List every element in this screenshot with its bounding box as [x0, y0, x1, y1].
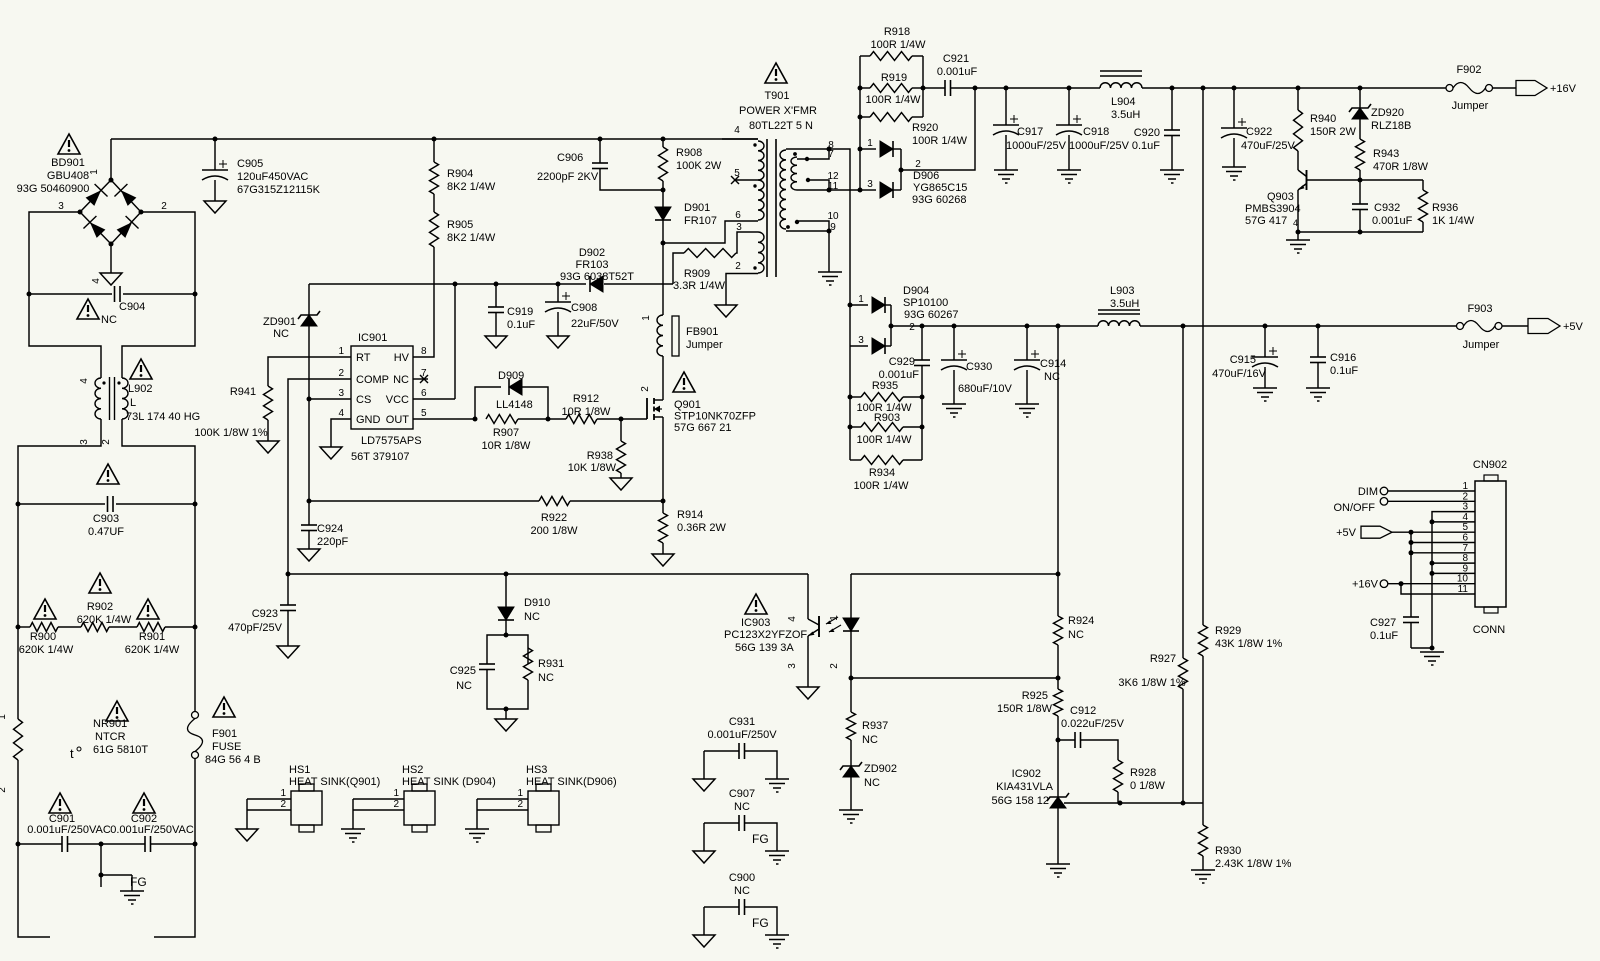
junction: [99, 873, 104, 878]
wire: [101, 874, 132, 876]
svg-text:2: 2: [909, 322, 915, 333]
capacitor C906: [537, 139, 663, 190]
svg-text:C921: C921: [943, 53, 969, 65]
ground FG: [120, 875, 147, 904]
resistor R924: [1054, 574, 1095, 678]
svg-text:FG: FG: [130, 875, 147, 889]
resistor R941: [194, 386, 272, 439]
wire: snubber left bus: [859, 56, 861, 190]
svg-text:R934: R934: [869, 467, 895, 479]
wire: [413, 356, 434, 357]
ground arrow: [257, 441, 279, 453]
capacitor C917: [993, 88, 1067, 183]
zener diode ZD902: [840, 762, 897, 789]
junction: [504, 707, 509, 712]
svg-text:D904: D904: [903, 285, 929, 297]
svg-text:10R 1/8W: 10R 1/8W: [562, 406, 612, 418]
svg-text:4: 4: [734, 125, 740, 136]
svg-text:C907: C907: [729, 788, 755, 800]
svg-text:NC: NC: [393, 374, 409, 386]
svg-text:LL4148: LL4148: [496, 399, 533, 411]
svg-text:DIM: DIM: [1358, 486, 1378, 498]
ground (secondary 9/10): [818, 272, 842, 285]
svg-text:R927: R927: [1150, 653, 1176, 665]
resistor R907: [482, 415, 532, 453]
label ON/OFF: [1333, 502, 1375, 514]
wire: [662, 220, 664, 243]
svg-text:FUSE: FUSE: [212, 741, 241, 753]
junction: [1316, 324, 1321, 329]
svg-text:C905: C905: [237, 158, 263, 170]
junction: [849, 676, 854, 681]
svg-text:2: 2: [161, 201, 167, 212]
junction: [661, 188, 666, 193]
svg-text:120uF450VAC: 120uF450VAC: [237, 171, 308, 183]
warning triangle: [97, 464, 119, 484]
resistor R929: [1199, 88, 1283, 803]
svg-text:2: 2: [517, 799, 523, 810]
junction: [920, 324, 925, 329]
svg-text:R912: R912: [573, 393, 599, 405]
svg-text:43K 1/8W 1%: 43K 1/8W 1%: [1215, 638, 1282, 650]
svg-text:2: 2: [0, 787, 8, 793]
svg-text:+5V: +5V: [1336, 527, 1357, 539]
svg-text:FG: FG: [752, 832, 769, 846]
svg-text:R918: R918: [884, 26, 910, 38]
diode D904 (3): [850, 335, 891, 354]
junction: [598, 137, 603, 142]
svg-text:1: 1: [338, 346, 344, 357]
wire: [850, 740, 852, 766]
junction: [1430, 571, 1435, 576]
junction: [193, 625, 198, 630]
svg-text:3: 3: [858, 335, 864, 346]
svg-text:1: 1: [867, 138, 873, 149]
connector CN902: [1457, 459, 1507, 636]
warning triangle: [137, 599, 159, 619]
flag +5V (conn): [1336, 526, 1392, 539]
junction: [848, 395, 853, 400]
svg-text:R922: R922: [541, 512, 567, 524]
svg-text:C925: C925: [450, 665, 476, 677]
junction: [899, 168, 904, 173]
svg-text:3: 3: [867, 179, 873, 190]
resistor R900: [19, 623, 74, 657]
junction: [619, 417, 624, 422]
svg-text:D901: D901: [684, 202, 710, 214]
junction: [16, 842, 21, 847]
wire: [1410, 532, 1412, 617]
svg-text:R937: R937: [862, 720, 888, 732]
wire: feedback rail: [288, 573, 808, 575]
transistor Q901: [640, 386, 756, 434]
junction: [1232, 86, 1237, 91]
svg-text:80TL22T 5 N: 80TL22T 5 N: [749, 120, 813, 132]
svg-text:R914: R914: [677, 509, 703, 521]
junction: [546, 417, 551, 422]
warning triangle: [673, 372, 695, 392]
wire pin3: [1432, 512, 1475, 648]
junction: [661, 499, 666, 504]
svg-text:470pF/25V: 470pF/25V: [228, 622, 282, 634]
label D904: [903, 285, 958, 333]
ground arrow (bridge pin 4): [91, 273, 122, 285]
junction: [1004, 86, 1009, 91]
svg-text:3: 3: [79, 439, 90, 445]
wire: [518, 418, 566, 420]
junction: [858, 147, 863, 152]
svg-text:+5V: +5V: [1563, 321, 1584, 333]
svg-text:C931: C931: [729, 716, 755, 728]
wire: [851, 573, 1058, 575]
svg-text:C930: C930: [966, 361, 992, 373]
svg-text:93G 50460900: 93G 50460900: [17, 183, 90, 195]
svg-text:3: 3: [787, 663, 798, 669]
svg-text:0.36R 2W: 0.36R 2W: [677, 522, 727, 534]
ground arrow: [495, 719, 517, 731]
wire: [736, 232, 758, 253]
svg-text:R908: R908: [676, 147, 702, 159]
resistor R903: [850, 412, 922, 446]
wire: [1297, 151, 1299, 170]
wire: [194, 504, 196, 627]
terminal ON/OFF: [1380, 498, 1388, 506]
wire pin11: [1401, 584, 1475, 594]
wire: [850, 574, 852, 618]
svg-text:2: 2: [915, 159, 921, 170]
junction: [16, 625, 21, 630]
wire: [849, 346, 851, 460]
svg-text:PMBS3904: PMBS3904: [1245, 203, 1301, 215]
svg-text:NTCR: NTCR: [95, 731, 126, 743]
svg-text:0.001uF/250VAC: 0.001uF/250VAC: [110, 824, 194, 836]
svg-text:C900: C900: [729, 872, 755, 884]
capacitor C923: [228, 574, 299, 658]
capacitor C912: [1058, 705, 1125, 760]
ground: [1420, 652, 1444, 665]
transformer T901: [734, 90, 839, 277]
junction: [286, 572, 291, 577]
svg-text:L: L: [130, 397, 136, 409]
svg-text:CN902: CN902: [1473, 459, 1507, 471]
svg-text:4: 4: [1293, 218, 1298, 228]
warning triangle: [49, 793, 71, 813]
wire: sec pin9: [786, 230, 829, 232]
wire: [901, 88, 975, 170]
svg-text:8K2 1/4W: 8K2 1/4W: [447, 181, 496, 193]
wire pin6: [1411, 542, 1475, 544]
junction: [1170, 86, 1175, 91]
svg-text:10K 1/8W: 10K 1/8W: [568, 462, 617, 474]
junction: [473, 417, 478, 422]
wire: [110, 244, 112, 273]
no-connect X: [420, 375, 428, 383]
svg-text:0.001uF: 0.001uF: [937, 66, 978, 78]
wire: [506, 635, 528, 664]
junction: [504, 572, 509, 577]
capacitor C902: [110, 813, 194, 852]
junction: [1409, 540, 1414, 545]
no-connect X: [731, 176, 739, 184]
capacitor C900: [693, 872, 789, 948]
junction: [556, 282, 561, 287]
wire: [433, 247, 435, 356]
junction: [858, 115, 863, 120]
svg-text:2.43K 1/8W 1%: 2.43K 1/8W 1%: [1215, 858, 1292, 870]
wire: [194, 759, 196, 844]
svg-text:C920: C920: [1134, 127, 1160, 139]
svg-text:CONN: CONN: [1473, 624, 1505, 636]
svg-text:R920: R920: [912, 122, 938, 134]
junction: [805, 157, 809, 161]
svg-text:Jumper: Jumper: [1452, 100, 1489, 112]
capacitor C929: [879, 326, 930, 381]
junction: [432, 137, 437, 142]
svg-text:F902: F902: [1456, 64, 1481, 76]
svg-text:IC902: IC902: [1012, 768, 1041, 780]
svg-text:R935: R935: [872, 380, 898, 392]
junction: [307, 499, 312, 504]
label DIM: [1358, 486, 1378, 498]
wire: [1359, 119, 1361, 139]
junction: [1409, 550, 1414, 555]
resistor R904: [430, 139, 496, 194]
resistor R937: [847, 678, 889, 746]
warning triangle: [130, 359, 152, 379]
svg-text:RT: RT: [356, 352, 371, 364]
svg-text:57G 417: 57G 417: [1245, 215, 1287, 227]
svg-text:3: 3: [736, 222, 742, 233]
junction: [494, 282, 499, 287]
svg-text:10R 1/8W: 10R 1/8W: [482, 440, 532, 452]
junction: [1430, 519, 1435, 524]
wire: [1360, 179, 1423, 181]
diode D906 (3): [860, 179, 901, 198]
svg-text:R905: R905: [447, 219, 473, 231]
warning triangle: [34, 599, 56, 619]
heat sink HS1: [236, 764, 380, 841]
wire: [141, 212, 195, 294]
junction: [827, 188, 832, 193]
wire: [951, 87, 976, 89]
svg-text:2: 2: [338, 368, 344, 379]
svg-text:1000uF/25V: 1000uF/25V: [1069, 140, 1130, 152]
svg-text:R903: R903: [874, 412, 900, 424]
wire pin4: [1432, 521, 1475, 523]
svg-text:D909: D909: [498, 370, 524, 382]
wire: sec pin8: [786, 149, 850, 305]
svg-text:1: 1: [89, 169, 100, 175]
svg-text:F901: F901: [212, 728, 237, 740]
inductor L903: [1098, 285, 1140, 326]
resistor R909: [673, 249, 736, 293]
wire: sec pin7 tie: [797, 149, 829, 159]
wire: [454, 284, 456, 399]
svg-text:3.3R 1/4W: 3.3R 1/4W: [673, 280, 726, 292]
wire: [413, 398, 455, 400]
junction: [1056, 572, 1061, 577]
wire: [518, 387, 548, 419]
junction: [889, 324, 894, 329]
svg-text:1: 1: [829, 615, 840, 621]
svg-text:C908: C908: [571, 302, 597, 314]
wire: sec pin12 tie: [808, 180, 829, 190]
junction: [848, 303, 853, 308]
svg-text:C923: C923: [252, 608, 278, 620]
IC IC901 LD7575APS: [338, 332, 427, 463]
svg-text:R919: R919: [881, 72, 907, 84]
svg-text:1: 1: [858, 294, 864, 305]
wire: [1142, 87, 1446, 89]
inductor L904: [1100, 71, 1142, 121]
wire: [309, 500, 539, 502]
svg-text:5: 5: [421, 408, 427, 419]
wire: [604, 283, 673, 285]
svg-text:0.022uF/25V: 0.022uF/25V: [1061, 718, 1125, 730]
junction: [1399, 581, 1404, 586]
svg-text:C915: C915: [1230, 354, 1256, 366]
resistor R902: [77, 601, 132, 632]
junction: [827, 229, 832, 234]
junction: [1056, 324, 1061, 329]
svg-text:R928: R928: [1130, 767, 1156, 779]
svg-text:100R 1/4W: 100R 1/4W: [912, 135, 968, 147]
junction: [1056, 676, 1061, 681]
capacitor C932: [1352, 180, 1413, 232]
heat sink HS3: [465, 764, 617, 842]
junction: [1296, 86, 1301, 91]
svg-text:FG: FG: [752, 916, 769, 930]
svg-text:COMP: COMP: [356, 374, 389, 386]
svg-text:4: 4: [338, 408, 344, 419]
wire: [268, 357, 351, 386]
capacitor C914: [1014, 326, 1066, 417]
svg-text:C922: C922: [1246, 126, 1272, 138]
wire: [18, 626, 30, 628]
junction: [213, 137, 218, 142]
junction: [1296, 230, 1301, 235]
resistor R922: [530, 497, 578, 538]
junction: [1409, 530, 1414, 535]
ground: [1191, 870, 1215, 883]
svg-text:57G 667 21: 57G 667 21: [674, 422, 732, 434]
wire: [1388, 500, 1475, 502]
svg-text:NC: NC: [864, 777, 880, 789]
wire: [735, 179, 758, 181]
svg-text:84G 56 4 B: 84G 56 4 B: [205, 754, 261, 766]
svg-text:R900: R900: [30, 631, 56, 643]
flag +16V: [1516, 81, 1577, 96]
capacitor C908: [545, 284, 619, 348]
junction: [1181, 324, 1186, 329]
svg-text:C932: C932: [1374, 202, 1400, 214]
shunt regulator IC902: [992, 768, 1070, 808]
wire: ref rail: [1064, 802, 1203, 804]
svg-text:6: 6: [421, 388, 427, 399]
terminal DIM: [1380, 487, 1388, 495]
wire: [673, 253, 684, 284]
junction: [661, 241, 666, 246]
svg-text:0.1uF: 0.1uF: [1132, 140, 1160, 152]
svg-text:1: 1: [280, 788, 286, 799]
svg-text:C904: C904: [119, 301, 145, 313]
fuse F902: [1446, 64, 1493, 112]
wire: [722, 138, 758, 140]
wire: [58, 626, 81, 628]
ground arrow: [320, 447, 342, 459]
resistor R914: [659, 501, 727, 554]
svg-text:620K 1/4W: 620K 1/4W: [125, 644, 180, 656]
LED (IC903): [843, 618, 859, 631]
svg-text:NC: NC: [273, 328, 289, 340]
svg-text:HEAT SINK(D906): HEAT SINK(D906): [526, 776, 617, 788]
junction: [1430, 646, 1435, 651]
capacitor C918: [1056, 88, 1130, 183]
ground arrow: [715, 305, 737, 317]
wire: [154, 844, 195, 937]
wire: [17, 627, 19, 719]
junction: [952, 324, 957, 329]
wire pin7: [1411, 552, 1475, 554]
svg-text:NC: NC: [862, 734, 878, 746]
junction: [1067, 86, 1072, 91]
svg-text:C929: C929: [889, 356, 915, 368]
diode D910: [498, 574, 550, 623]
svg-text:470R 1/8W: 470R 1/8W: [1373, 161, 1429, 173]
svg-text:NC: NC: [734, 801, 750, 813]
svg-text:2: 2: [393, 799, 399, 810]
svg-text:2: 2: [829, 663, 840, 669]
svg-text:R940: R940: [1310, 113, 1336, 125]
wire: [151, 843, 195, 845]
svg-text:0.1uF: 0.1uF: [1330, 365, 1358, 377]
junction: [848, 425, 853, 430]
svg-text:1K 1/4W: 1K 1/4W: [1432, 215, 1475, 227]
optocoupler IC903: [724, 615, 841, 687]
wire: [1057, 808, 1059, 864]
svg-text:t: t: [70, 746, 74, 761]
wire: main HV+ rail: [111, 138, 758, 140]
svg-text:100R 1/4W: 100R 1/4W: [856, 434, 912, 446]
wire: [122, 419, 195, 504]
svg-text:ZD902: ZD902: [864, 763, 897, 775]
wire: [851, 677, 1058, 679]
wire: [1502, 325, 1528, 327]
wire: [100, 844, 102, 887]
resistor R920: [860, 113, 968, 148]
svg-text:D902: D902: [579, 247, 605, 259]
svg-text:C917: C917: [1017, 126, 1043, 138]
svg-text:C906: C906: [557, 152, 583, 164]
svg-text:Q901: Q901: [674, 399, 701, 411]
svg-text:D906: D906: [913, 170, 939, 182]
wire: [890, 305, 892, 346]
wire: [921, 366, 923, 398]
resistor R912: [562, 393, 612, 424]
wire: [506, 680, 528, 709]
diode D906 (1): [860, 138, 901, 157]
junction: [1201, 86, 1206, 91]
svg-text:Jumper: Jumper: [686, 339, 723, 351]
svg-text:ON/OFF: ON/OFF: [1333, 502, 1375, 514]
svg-text:YG865C15: YG865C15: [913, 182, 967, 194]
svg-text:R925: R925: [1022, 690, 1048, 702]
resistor R918: [860, 26, 926, 61]
wire: [487, 635, 506, 664]
junction: [921, 86, 926, 91]
junction: [661, 137, 666, 142]
diode D904 (1): [850, 294, 891, 313]
